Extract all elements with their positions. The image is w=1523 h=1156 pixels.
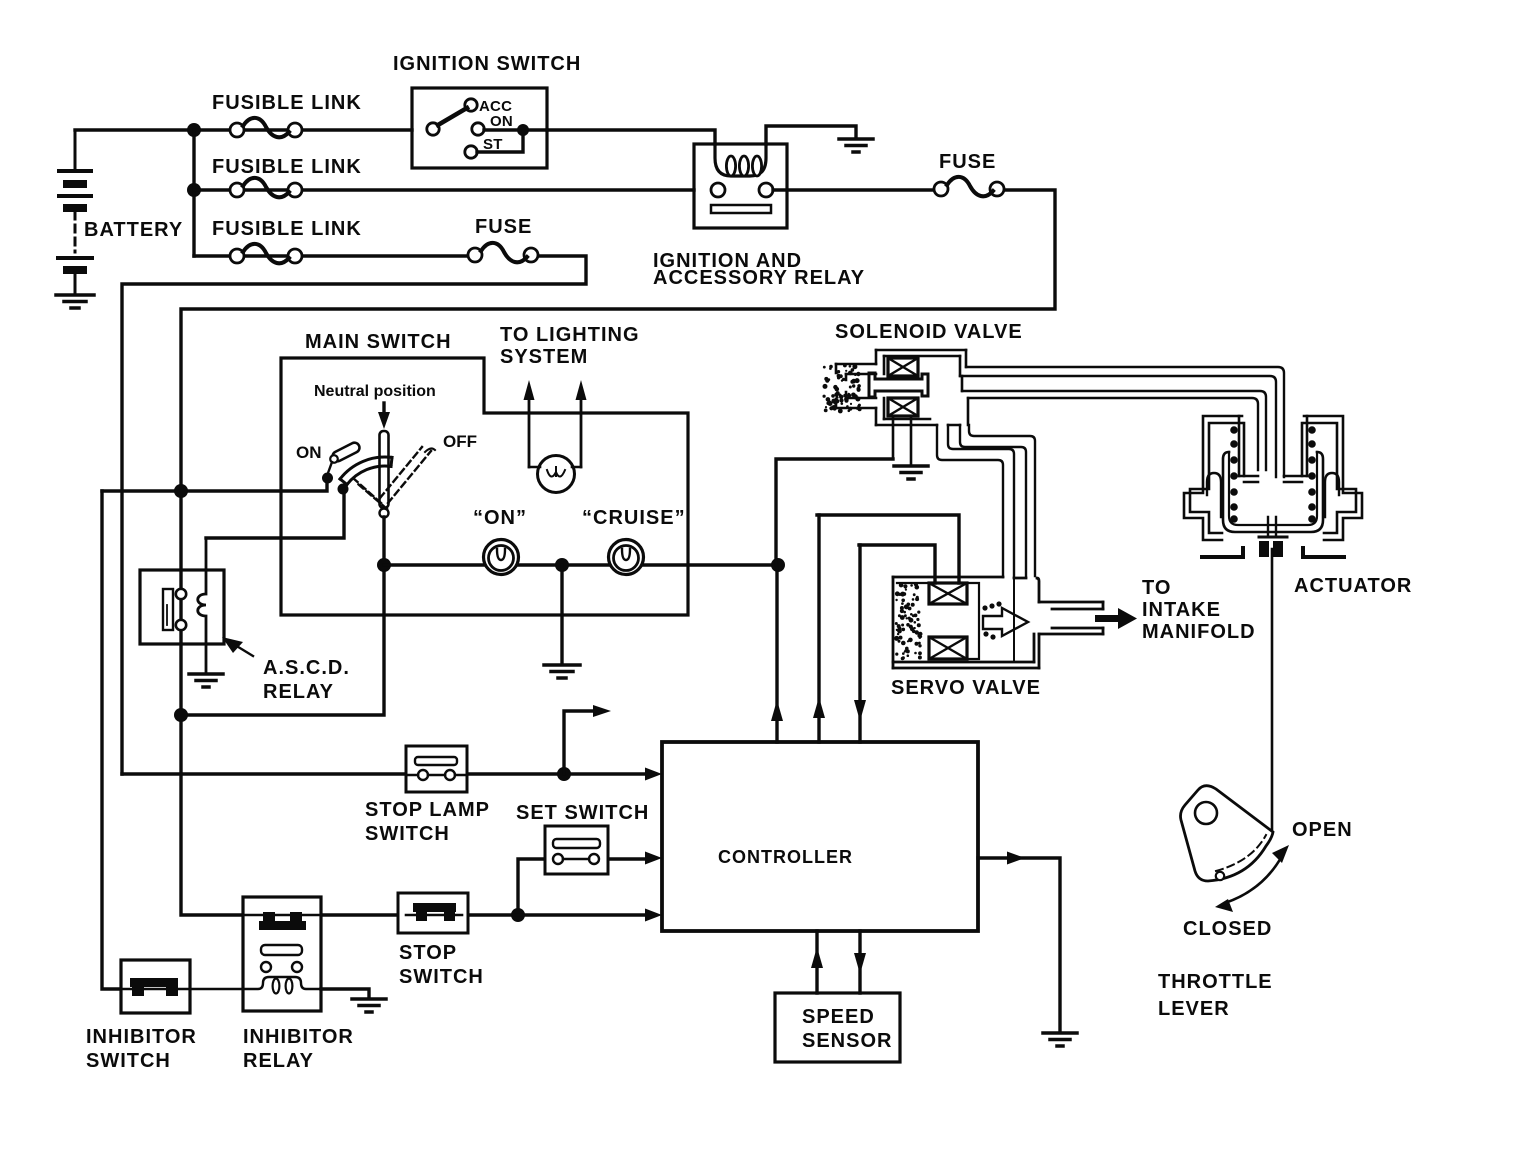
svg-text:MANIFOLD: MANIFOLD <box>1142 621 1256 643</box>
ground ignition relay <box>839 139 873 152</box>
stop switch row <box>321 913 648 916</box>
svg-text:TO: TO <box>1142 577 1171 599</box>
svg-text:RELAY: RELAY <box>263 681 334 703</box>
hose channel P solenoid to servo <box>937 425 1014 577</box>
right foot <box>1303 548 1344 557</box>
X-box upper <box>888 358 918 376</box>
svg-text:ON: ON <box>490 113 513 130</box>
svg-text:INHIBITOR: INHIBITOR <box>243 1026 354 1048</box>
main switch lever rod <box>380 431 389 518</box>
svg-text:FUSE: FUSE <box>939 151 996 173</box>
right shell outer wall <box>1304 416 1362 540</box>
node junction lamp ground <box>555 558 569 572</box>
svg-text:OPEN: OPEN <box>1292 819 1353 841</box>
node junction ON-contact row <box>174 484 188 498</box>
fuse F2 (right) <box>934 177 1004 196</box>
node junction stop lamp row <box>557 767 571 781</box>
branch arrow to stop lamps <box>564 705 611 774</box>
stem <box>1268 517 1276 537</box>
right gap shelf <box>1284 476 1307 482</box>
svg-text:IGNITION SWITCH: IGNITION SWITCH <box>393 53 581 75</box>
svg-text:SET SWITCH: SET SWITCH <box>516 802 649 824</box>
ground ASCD <box>189 674 223 687</box>
ground battery <box>56 295 94 308</box>
speed sensor wires <box>811 931 866 993</box>
bottom <box>876 419 960 425</box>
chamber <box>893 576 1003 579</box>
lamp indicator row <box>384 563 778 566</box>
controller output right <box>978 858 1060 1032</box>
left tower inner wall <box>1239 416 1244 476</box>
left walls <box>876 350 884 425</box>
svg-text:“ON”: “ON” <box>473 507 527 529</box>
inhibitor relay K3 <box>243 897 321 1011</box>
SOLENOID VALVE assembly <box>836 350 968 464</box>
wire bus vertical from battery <box>192 130 195 256</box>
set switch row <box>518 859 648 915</box>
X-box lower <box>888 398 918 416</box>
X-box upper <box>929 583 967 604</box>
svg-text:Neutral position: Neutral position <box>314 383 436 400</box>
stop switch SW4 <box>398 893 468 933</box>
svg-text:STOP: STOP <box>399 942 457 964</box>
arrowhead into controller (stop lamp row) <box>645 768 662 781</box>
svg-text:MAIN SWITCH: MAIN SWITCH <box>305 331 452 353</box>
actuator spring dots <box>1230 426 1316 523</box>
solenoid inlet stipple <box>823 364 862 414</box>
svg-text:CONTROLLER: CONTROLLER <box>718 847 853 867</box>
svg-text:SPEED: SPEED <box>802 1006 875 1028</box>
svg-text:ST: ST <box>483 136 503 153</box>
fuse F1 (left) <box>468 243 538 262</box>
svg-text:INHIBITOR: INHIBITOR <box>86 1026 197 1048</box>
right walls <box>960 350 968 425</box>
right tower inner wall <box>1302 416 1307 476</box>
node junction cruise feed <box>771 558 785 572</box>
svg-text:TO LIGHTING: TO LIGHTING <box>500 324 640 346</box>
svg-text:OFF: OFF <box>443 432 477 451</box>
svg-text:SWITCH: SWITCH <box>365 823 450 845</box>
main switch ON handle <box>328 441 361 473</box>
right shell inner wall <box>1304 423 1356 533</box>
wire battery top row <box>75 130 715 144</box>
svg-text:THROTTLE: THROTTLE <box>1158 971 1273 993</box>
lamp CRUISE L2 <box>609 540 644 575</box>
battery B1 <box>58 130 92 294</box>
coil wires down <box>893 416 911 464</box>
fusible link 2 <box>194 178 694 197</box>
hose channel Q solenoid to servo <box>960 425 1035 576</box>
svg-text:FUSE: FUSE <box>475 216 532 238</box>
svg-text:“CRUISE”: “CRUISE” <box>582 507 686 529</box>
set switch SW3 <box>545 826 608 874</box>
wire relay to fuse2 and solenoid feed <box>181 190 1055 915</box>
contact dots main switch <box>322 473 349 495</box>
ignition and accessory relay K1 <box>694 126 856 228</box>
ignition switch SW1 <box>412 88 547 168</box>
svg-text:SOLENOID VALVE: SOLENOID VALVE <box>835 321 1023 343</box>
X-box lower <box>929 637 967 659</box>
svg-text:FUSIBLE LINK: FUSIBLE LINK <box>212 156 362 178</box>
A.S.C.D. relay K2 <box>140 538 224 672</box>
ground controller right <box>1043 1033 1077 1046</box>
inlet <box>836 364 876 408</box>
servo coil feed wires <box>817 515 959 583</box>
wire pivot down and to lamps row <box>181 517 384 715</box>
chamber top double wall <box>876 350 966 356</box>
svg-text:SERVO VALVE: SERVO VALVE <box>891 677 1041 699</box>
ground under lamps <box>544 665 580 678</box>
leak dots <box>982 601 1001 639</box>
svg-text:LEVER: LEVER <box>1158 998 1230 1020</box>
speed sensor box <box>775 993 900 1062</box>
lamp ON L1 <box>484 540 519 575</box>
left gap shelf <box>1239 476 1258 482</box>
to lighting arrows <box>524 380 587 467</box>
right diaphragm curl <box>1325 473 1339 517</box>
svg-text:INTAKE: INTAKE <box>1142 599 1221 621</box>
stop lamp switch SW2 <box>406 746 467 792</box>
servo stipple <box>894 582 922 660</box>
CONTROLLER box <box>662 742 978 931</box>
ground solenoid <box>894 466 928 479</box>
node junction set/stop row <box>511 908 525 922</box>
open/closed arc arrow <box>1215 845 1289 912</box>
svg-text:SENSOR: SENSOR <box>802 1030 892 1052</box>
spool arrow <box>983 608 1028 636</box>
node junction A.S.C.D. row <box>174 708 188 722</box>
svg-text:CLOSED: CLOSED <box>1183 918 1272 940</box>
dashed OFF position <box>353 447 431 509</box>
lighting lamp L3 <box>529 456 581 493</box>
SERVO VALVE assembly <box>893 577 1103 668</box>
svg-text:FUSIBLE LINK: FUSIBLE LINK <box>212 92 362 114</box>
svg-text:STOP LAMP: STOP LAMP <box>365 799 490 821</box>
ACTUATOR assembly <box>1184 416 1362 557</box>
throttle lever <box>1181 786 1274 881</box>
intake tube <box>1039 602 1103 634</box>
fusible link 1 <box>230 118 302 137</box>
svg-text:ON: ON <box>296 443 322 462</box>
left shell outer wall <box>1184 416 1242 540</box>
svg-text:RELAY: RELAY <box>243 1050 314 1072</box>
svg-text:A.S.C.D.: A.S.C.D. <box>263 657 350 679</box>
node junction row1/row2 <box>187 123 201 197</box>
solenoid coil feed wire <box>776 459 893 565</box>
hose tube A solenoid to actuator upper <box>960 367 1284 477</box>
neutral position arrow <box>378 403 390 429</box>
svg-text:SWITCH: SWITCH <box>399 966 484 988</box>
ASCD pointer arrow <box>222 637 253 656</box>
left foot <box>1202 548 1243 557</box>
wire lamp row to ground <box>560 565 563 663</box>
inner frame <box>967 583 979 659</box>
arrow to intake manifold <box>1095 608 1137 629</box>
plunger T <box>869 373 928 397</box>
wire ASCD coil row <box>206 489 344 538</box>
actuator rod to throttle lever <box>1271 549 1274 831</box>
inhibitor switch SW5 <box>121 960 243 1013</box>
wire ON contact row <box>102 481 327 491</box>
svg-text:BATTERY: BATTERY <box>84 219 183 241</box>
svg-text:ACCESSORY RELAY: ACCESSORY RELAY <box>653 267 865 289</box>
svg-text:FUSIBLE LINK: FUSIBLE LINK <box>212 218 362 240</box>
svg-text:ACTUATOR: ACTUATOR <box>1294 575 1412 597</box>
left vertical to inhibitor switch <box>102 491 121 989</box>
left shell inner wall <box>1190 423 1242 533</box>
inhibitor relay right ground wire <box>321 989 369 997</box>
cup <box>1223 452 1323 532</box>
controller top wires <box>771 515 866 742</box>
svg-text:SYSTEM: SYSTEM <box>500 346 588 368</box>
node pivot/lamp row <box>377 558 391 572</box>
svg-text:SWITCH: SWITCH <box>86 1050 171 1072</box>
main switch arc contact <box>340 457 392 485</box>
main switch box <box>281 358 688 615</box>
off arrow tip <box>425 448 435 452</box>
fusible link 3 <box>122 244 586 774</box>
hose tube B solenoid to actuator lower <box>962 391 1266 470</box>
left diaphragm curl <box>1207 473 1221 517</box>
stop lamp switch row <box>122 772 648 775</box>
